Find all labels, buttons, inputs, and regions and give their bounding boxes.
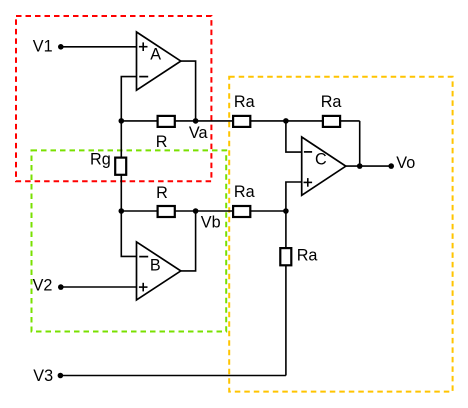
green dashed box (stage B) [32,150,227,331]
node junction C - input column (Va row) [283,118,289,124]
svg-text:R: R [156,133,168,151]
resistor Ra (mid-left, Vb row) [233,206,250,217]
svg-text:Vb: Vb [201,214,221,232]
op-amp B - pin [139,256,148,258]
svg-text:Ra: Ra [321,93,342,111]
op-amp A - pin [139,76,148,78]
wire V1 to op-amp A + input [61,46,137,48]
svg-text:R: R [156,184,168,202]
node Va junction dot [193,118,199,124]
wire Vb row (through R and Ra to C input column) [121,210,286,212]
svg-text:A: A [150,46,161,64]
op-amp A [137,32,181,90]
svg-text:Vo: Vo [396,154,415,172]
op-amp C [302,137,346,195]
wire op-amp C output to Vo [346,165,391,167]
node Vo terminal dot [388,163,394,169]
resistor Ra (top-left, Va row) [233,116,250,127]
wire node to op-amp C + input [286,182,302,211]
wire Rg column (node to node) [120,121,122,211]
svg-text:Ra: Ra [234,183,255,201]
resistor Ra (top-right, feedback) [323,116,340,127]
resistor Rg (vertical) [115,158,126,175]
wire C feedback column down to output [359,121,361,166]
op-amp C + pin [304,178,313,187]
wire V3 row [60,375,286,377]
node V2 terminal dot [58,284,64,290]
svg-text:Rg: Rg [90,151,111,169]
op-amp B + pin [139,283,148,292]
resistor Ra (vertical, to V3) [280,248,291,265]
op-amp A + pin [139,42,148,51]
node V3 terminal dot [58,373,64,379]
wire node through vertical Ra down to V3 row [285,211,287,376]
svg-text:Ra: Ra [234,93,255,111]
orange dashed box (stage C) [229,77,452,392]
wire V2 to op-amp B + input [61,286,137,288]
node V1 terminal dot [58,44,64,50]
wire node to op-amp C - input [286,121,302,152]
svg-text:Va: Va [189,124,208,142]
svg-text:C: C [315,151,327,169]
red dashed box (stage A) [16,16,211,181]
node junction C + input column (Vb row) [283,208,289,214]
wire Va row (through R and Ra to C feedback column) [121,120,359,122]
resistor R (top, Va row) [158,116,175,127]
op-amp B [137,242,181,300]
svg-text:Ra: Ra [297,247,318,265]
node Vb junction dot [193,208,199,214]
wire op-amp B output to node Vb [181,211,196,271]
node junction A feedback (left, Va row) [119,118,125,124]
wire op-amp A - input feedback [121,77,136,121]
svg-text:V1: V1 [33,37,53,55]
svg-text:B: B [150,256,161,274]
resistor R (bottom, Vb row) [158,206,175,217]
wire op-amp B - input feedback [121,211,136,256]
node junction B feedback (left, Vb row) [119,208,125,214]
wire op-amp A output to node Va [181,61,196,121]
node junction C output feedback [357,163,363,169]
svg-text:V2: V2 [33,277,53,295]
op-amp C - pin [304,151,312,153]
svg-text:V3: V3 [33,367,53,385]
